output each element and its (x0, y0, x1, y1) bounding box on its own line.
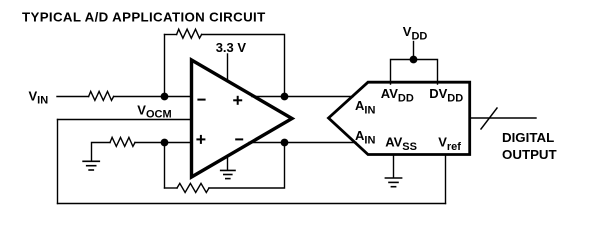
wire VDD drop (413, 42, 415, 60)
op-amp U1 triangle (192, 60, 293, 177)
wire feedback top left segment (165, 34, 177, 36)
wire digital output bus (470, 117, 536, 119)
wire bottom feedback left segment (165, 187, 178, 189)
svg-text:AIN: AIN (355, 98, 375, 117)
wire bottom feedback right segment (209, 143, 285, 189)
wire VDD bracket (391, 60, 438, 85)
svg-text:3.3 V: 3.3 V (216, 40, 247, 55)
node C (non-inverting input junction) (161, 139, 169, 147)
wire op-amp - output to ADC AIN2 (249, 142, 356, 144)
wire up to Vref pin (445, 156, 447, 204)
resistor R3 (non-inverting input) (110, 137, 135, 146)
wire 3.3V supply to op-amp (227, 54, 229, 82)
wire feedback top right segment (202, 35, 285, 97)
op-amp minus sign (inverting input) (198, 99, 204, 101)
node B (+ output junction) (281, 93, 289, 101)
svg-text:VIN: VIN (29, 88, 49, 106)
node E (VDD junction) (410, 56, 418, 64)
resistor R1 (input top) (89, 91, 114, 100)
svg-text:Vref: Vref (438, 135, 461, 153)
svg-text:VOCM: VOCM (137, 103, 171, 121)
wire bottom return (58, 203, 446, 205)
op-amp plus sign (positive output) (234, 97, 241, 104)
ground G1 stub (bottom-left) (92, 143, 111, 162)
svg-text:OUTPUT: OUTPUT (502, 147, 557, 162)
wire left vertical down (57, 120, 59, 204)
op-amp plus sign (non-inverting input) (197, 136, 204, 143)
ground G3 stub (ADC AVSS) (393, 156, 395, 178)
wire node C down to bottom feedback (164, 143, 166, 189)
svg-text:AVDD: AVDD (381, 86, 414, 105)
node D (- output junction) (281, 139, 289, 147)
wire VOCM from ADC Vref: horizontal into op-amp (58, 119, 192, 121)
ground G2 stub (op-amp VEE) (227, 156, 229, 170)
svg-text:TYPICAL A/D APPLICATION CIRCUI: TYPICAL A/D APPLICATION CIRCUIT (22, 9, 266, 24)
wire R3 to op-amp non-inverting input (135, 142, 192, 144)
ground G2 bars (221, 170, 235, 178)
op-amp minus sign (negative output) (236, 138, 242, 140)
ground G1 bars (83, 161, 99, 170)
ground G3 bars (385, 178, 401, 187)
svg-text:AVSS: AVSS (385, 135, 417, 153)
svg-text:DVDD: DVDD (429, 86, 463, 105)
wire op-amp + output to ADC AIN1 (252, 96, 353, 98)
resistor R4 (bottom feedback) (177, 183, 209, 192)
node A (inverting input junction) (161, 93, 169, 101)
ADC U2 body (329, 82, 470, 154)
wire R1 to op-amp inverting input (114, 96, 192, 98)
wire V_IN to R1 (57, 96, 89, 98)
svg-text:VDD: VDD (403, 24, 428, 43)
bus width slash (481, 108, 497, 129)
wire node A up to feedback (164, 35, 166, 97)
svg-text:DIGITAL: DIGITAL (502, 130, 554, 145)
resistor R2 (top feedback) (177, 29, 202, 38)
